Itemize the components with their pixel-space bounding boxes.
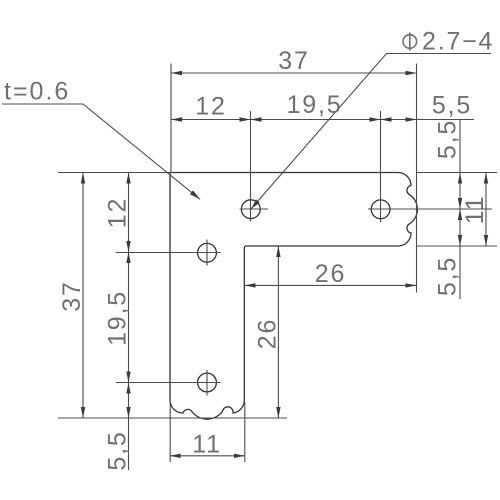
svg-text:t=0.6: t=0.6: [4, 78, 70, 106]
hole H4 (left lower): [198, 373, 217, 392]
dimension line 26 horizontal: [245, 284, 417, 286]
extension line right edge (long, top 37 / 5,5 / 26): [416, 64, 418, 293]
arrow 11 bottom right: [234, 454, 245, 458]
centerline H2 vertical / extension to top chain dims: [380, 111, 382, 222]
arrow 37 top right: [406, 71, 417, 75]
leader line phi 2.7-4: [251, 54, 491, 209]
arrow 19,5 left top: [126, 252, 130, 263]
hole H3 (left upper): [198, 243, 217, 262]
svg-text:37: 37: [58, 280, 86, 311]
svg-text:2.7−4: 2.7−4: [422, 28, 494, 56]
svg-text:26: 26: [254, 318, 282, 349]
arrow 26 vertical bottom: [276, 407, 280, 418]
arrow 19,5 left bottom: [126, 372, 130, 383]
svg-text:12: 12: [195, 93, 226, 121]
centerline H3 horizontal / extension to left chain dims: [116, 252, 221, 254]
svg-text:11: 11: [461, 195, 489, 225]
arrow 26 horizontal left: [245, 283, 256, 287]
dimension line 11 right: [485, 173, 487, 247]
hole H2 (top right): [371, 200, 390, 219]
svg-text:26: 26: [315, 260, 346, 288]
svg-text:5,5: 5,5: [434, 256, 462, 296]
arrow 19,5 left: [251, 117, 262, 121]
dimension line 19,5 top: [251, 119, 381, 121]
arrow 5,5 top left: [381, 117, 392, 121]
dimension line 26 vertical: [277, 246, 279, 418]
arrow 37 left top: [81, 173, 85, 184]
arrow 19,5 right: [370, 117, 381, 121]
extension line top edge to left dims: [58, 172, 171, 174]
centerline H2 horizontal / extension to right 5,5 dims: [368, 208, 492, 210]
arrow 5,5 left top: [126, 383, 130, 394]
arrow 26 vertical top: [276, 246, 280, 257]
phi symbol of hole callout: [403, 33, 417, 51]
centerline H4 horizontal / extension to left chain dims: [116, 382, 221, 384]
dimension line 12 top: [171, 119, 251, 121]
hole H1 (top middle): [241, 200, 260, 219]
arrow 12 top right: [240, 117, 251, 121]
arrow 12 left bottom: [126, 241, 130, 252]
arrow 37 top left: [171, 71, 182, 75]
arrow leader phi2.7-4: [251, 199, 259, 208]
centerline H1 vertical / extension to top chain dims: [250, 111, 252, 222]
extension line bottom 11 dim left: [169, 402, 171, 462]
svg-text:11: 11: [192, 431, 222, 459]
arrow 5,5 left bottom: [126, 407, 130, 418]
dimension line 11 bottom: [170, 455, 246, 457]
extension line bottom of horizontal leg to right dims: [417, 245, 498, 247]
svg-text:19,5: 19,5: [287, 91, 343, 119]
arrow right 5,5 upper bottom: [458, 198, 462, 209]
arrow 11 bottom left: [170, 454, 181, 458]
centerline H4 vertical: [206, 370, 208, 396]
arrow 12 top left: [171, 117, 182, 121]
arrow 11 right top: [484, 173, 488, 184]
arrow 37 left bottom: [81, 407, 85, 418]
dimension line 5,5 top (extended right for text): [381, 119, 475, 121]
centerline H1 horizontal: [240, 208, 269, 210]
svg-text:5,5: 5,5: [434, 119, 462, 159]
extension line bottom edge (long, left 37 / 5,5 / 26): [58, 417, 287, 419]
arrow 12 left top: [126, 173, 130, 184]
dimension line left chain 12 / 19,5 / 5,5 (extended for text): [128, 173, 130, 471]
dimension line 37 top: [171, 72, 417, 74]
arrow right 5,5 lower top: [458, 209, 462, 220]
arrow right 5,5 lower bottom: [458, 235, 462, 246]
svg-text:5,5: 5,5: [432, 92, 472, 120]
svg-text:5,5: 5,5: [104, 430, 132, 470]
extension line left edge top: [170, 64, 172, 173]
arrow right 5,5 upper top: [458, 173, 462, 184]
leader line t=0.6: [2, 104, 200, 199]
svg-text:12: 12: [104, 197, 132, 228]
arrow 5,5 top right: [406, 117, 417, 121]
plate outline: [170, 173, 417, 420]
arrow 11 right bottom: [484, 235, 488, 246]
extension line bottom 11 dim right: [244, 402, 246, 462]
dimension line right 5,5 / 5,5 (extended for text): [459, 119, 461, 299]
extension line top edge to right dims: [417, 172, 498, 174]
svg-text:19,5: 19,5: [104, 290, 132, 346]
arrow 26 horizontal right: [406, 283, 417, 287]
arrow leader t=0.6: [190, 190, 200, 199]
centerline H3 vertical: [206, 240, 208, 266]
dimension line 37 left: [82, 173, 84, 419]
svg-text:37: 37: [278, 47, 309, 75]
